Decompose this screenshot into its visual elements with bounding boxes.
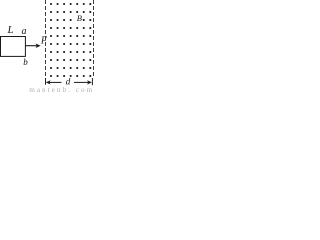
dimension arrow right xyxy=(74,80,92,84)
dimension right tick xyxy=(91,78,93,85)
svg-text:B: B xyxy=(77,13,82,23)
force arrow F xyxy=(25,43,40,48)
svg-text:F: F xyxy=(40,36,48,47)
dashed field boundary right xyxy=(93,0,95,78)
dimension left tick xyxy=(45,78,47,85)
svg-text:a: a xyxy=(22,26,27,37)
field dots (B out of page) xyxy=(50,3,91,77)
dimension arrow left xyxy=(46,80,62,84)
svg-text:L: L xyxy=(7,24,14,36)
square loop xyxy=(1,37,26,57)
dashed field boundary left xyxy=(45,0,47,78)
svg-text:b: b xyxy=(23,57,28,67)
